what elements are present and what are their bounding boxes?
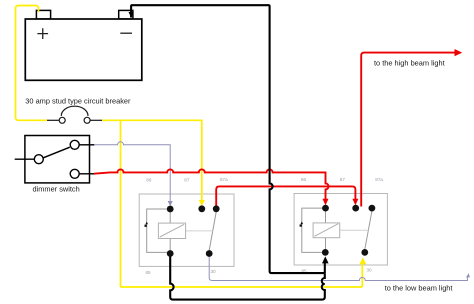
- svg-text:87a: 87a: [375, 177, 383, 182]
- svg-text:to the low beam light: to the low beam light: [385, 284, 453, 293]
- svg-text:87: 87: [184, 178, 190, 183]
- svg-text:to the high beam light: to the high beam light: [374, 58, 445, 67]
- svg-text:30 amp stud type circuit break: 30 amp stud type circuit breaker: [25, 96, 131, 105]
- svg-text:86: 86: [146, 178, 152, 183]
- svg-text:dimmer switch: dimmer switch: [33, 184, 80, 193]
- svg-text:85: 85: [146, 270, 152, 275]
- svg-text:86: 86: [301, 177, 307, 182]
- svg-text:87: 87: [340, 177, 346, 182]
- svg-text:87a: 87a: [220, 177, 228, 182]
- svg-text:30: 30: [367, 268, 373, 273]
- svg-text:30: 30: [211, 269, 217, 274]
